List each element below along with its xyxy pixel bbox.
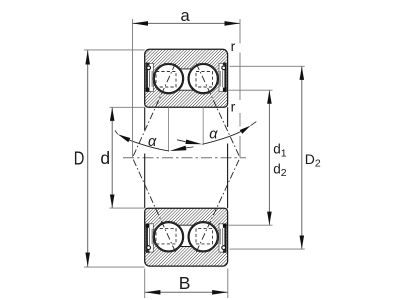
dimension d extension lines: [110, 107, 145, 208]
contact line upper-right row: [196, 64, 240, 158]
seal left: [146, 64, 148, 92]
dimension D line: [87, 50, 89, 267]
raceway groove right: [188, 222, 219, 253]
seal pocket right: [219, 224, 226, 252]
inner ring side face right: [227, 107, 229, 208]
ball left: [154, 64, 182, 92]
svg-text:d: d: [100, 148, 110, 168]
angle arc right with arrows: [177, 122, 256, 145]
svg-text:D: D: [74, 148, 85, 168]
centerline (bearing axis): [123, 157, 246, 159]
seal pocket left: [146, 224, 153, 252]
dimension d1/d2 extension lines: [229, 90, 273, 225]
svg-text:B: B: [179, 273, 191, 293]
contact line lower-right row: [196, 158, 240, 252]
dimension B extension lines: [145, 269, 228, 299]
cage pocket left (dashed): [156, 72, 176, 88]
cage pocket right (dashed): [196, 72, 213, 88]
raceway groove left: [153, 63, 184, 94]
top half section: [145, 49, 228, 107]
dimension B line: [145, 291, 228, 293]
ball centre line left: [168, 107, 170, 151]
dimension d1/d2 line: [268, 90, 270, 225]
dimension D2 line: [301, 67, 303, 249]
dimension a extension lines: [133, 19, 241, 158]
dimension D extension lines: [84, 50, 145, 267]
svg-text:α: α: [148, 134, 157, 150]
contact line upper-left row: [133, 64, 176, 158]
seal right: [224, 64, 226, 92]
angle arc left with arrows: [115, 130, 194, 151]
raceway groove left: [153, 222, 184, 253]
cage pocket left (dashed): [156, 228, 176, 244]
dimension d line: [111, 108, 113, 208]
ball left: [154, 223, 182, 251]
bearing ring section block (hatched): [145, 208, 228, 266]
dimension a line: [133, 22, 241, 24]
seal pocket left: [146, 63, 153, 91]
dimension D2 extension lines: [230, 66, 305, 249]
cage pocket right (dashed): [196, 228, 213, 244]
svg-text:r: r: [231, 98, 236, 114]
cavity waist between balls: [179, 225, 194, 246]
svg-text:a: a: [181, 7, 191, 25]
seal pocket right: [219, 63, 226, 91]
seal right: [224, 224, 226, 252]
cavity waist between balls: [179, 69, 194, 90]
contact line lower-left row: [133, 158, 176, 252]
raceway groove right: [188, 63, 219, 94]
bottom half section (mirrored): [145, 208, 228, 266]
inner ring side face left: [144, 107, 146, 208]
bearing ring section block (hatched): [145, 49, 228, 107]
svg-text:r: r: [231, 38, 236, 54]
ball right: [189, 64, 217, 92]
ball centre line right: [202, 107, 204, 144]
svg-text:α: α: [209, 126, 218, 142]
ball right: [189, 223, 217, 251]
seal left: [146, 224, 148, 252]
